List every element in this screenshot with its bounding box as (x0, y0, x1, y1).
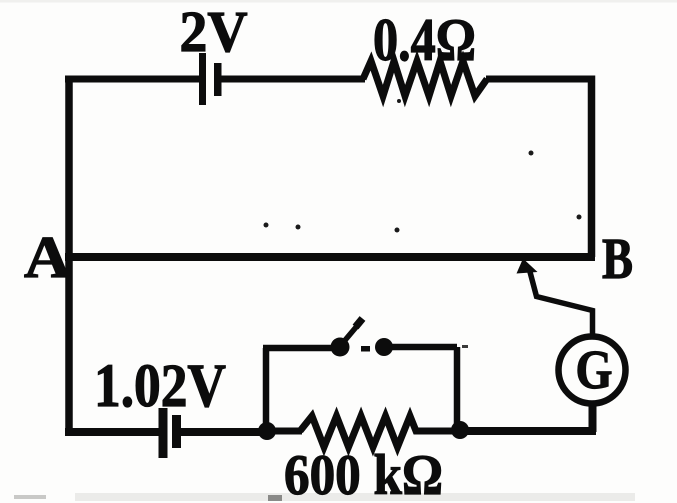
speckle 5 (577, 215, 582, 220)
switch K lever tip (356, 319, 363, 328)
wire bottom segment left (A to 1.02V battery) (65, 428, 160, 436)
jockey arrow head (517, 259, 538, 274)
svg-text:B: B (602, 226, 633, 291)
wire right vertical (corner to B) (588, 76, 596, 258)
speckle 4 (529, 151, 534, 156)
switch K gap mark (361, 346, 370, 352)
jockey arrow shaft (530, 270, 593, 336)
wire bottom segment (junction to galvanometer corner) (460, 404, 596, 432)
speckle 6 comma under top resistor (397, 99, 401, 103)
scan artifact bottom-left dashes (14, 495, 46, 499)
scan artifact bottom strip (75, 493, 635, 501)
wire top segment left (A-side to 2V battery) (65, 76, 199, 83)
svg-text:G: G (576, 339, 613, 400)
svg-text:0.4Ω: 0.4Ω (373, 7, 476, 73)
wire switch branch left vertical (263, 348, 270, 434)
wire switch branch top right (384, 344, 457, 351)
wire left vertical (corner through A to bottom) (65, 76, 73, 433)
battery 1.02V short plate (172, 415, 181, 448)
scan artifact bottom dark dash (268, 495, 282, 501)
wire top segment middle (battery to resistor) (221, 76, 365, 83)
scan artifact top line (0, 0, 677, 3)
speckle 7 right of switch branch (462, 345, 468, 348)
wire bottom segment (junction to 600k resistor) (267, 428, 302, 435)
svg-text:A: A (24, 224, 71, 290)
junction dot right (451, 421, 469, 439)
speckle 2 (296, 225, 301, 230)
battery 1.02V long plate (159, 408, 168, 458)
galvanometer G circle (559, 337, 626, 404)
svg-text:1.02V: 1.02V (94, 353, 226, 420)
switch K left contact dot (331, 338, 350, 357)
wire switch branch right vertical (454, 347, 461, 431)
svg-text:600 kΩ: 600 kΩ (284, 444, 443, 503)
junction dot left (258, 422, 276, 440)
battery 2V long plate (199, 53, 206, 105)
resistor R 600 kohm zigzag (300, 416, 422, 447)
potentiometer wire AB (65, 253, 595, 261)
wire top segment right (resistor to corner) (486, 76, 592, 83)
wire galvanometer bottom stub (589, 403, 596, 432)
switch K lever arm (341, 326, 357, 345)
speckle 3 (395, 228, 400, 233)
speckle 1 (264, 223, 269, 228)
wire bottom segment (resistor to right junction) (420, 428, 460, 435)
wire switch branch top left (263, 345, 340, 352)
resistor R 0.4 ohm zigzag (363, 61, 487, 96)
svg-text:2V: 2V (180, 0, 248, 64)
wire bottom segment (battery to left junction) (181, 428, 267, 436)
battery 2V short plate (214, 63, 222, 96)
switch K right contact dot (375, 338, 393, 356)
